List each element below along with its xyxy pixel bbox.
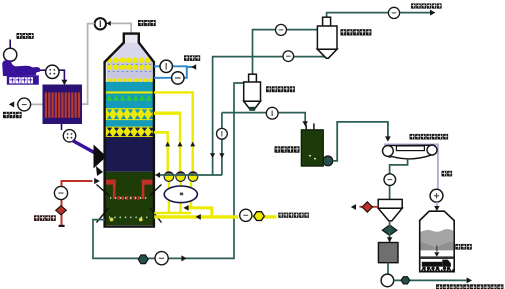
wire gypsum-cyclone branch (line B)	[221, 113, 223, 175]
absorber tower outline	[105, 34, 154, 227]
arrow up riser 2	[178, 142, 183, 147]
arrow down line B	[219, 153, 224, 158]
label waste water cyclone 废水旋流器	[341, 29, 372, 35]
vacuum belt filter 真空皮带脱水机	[383, 145, 438, 159]
slurry recirculation pump 3	[188, 172, 198, 182]
instrument circle overflow line	[276, 24, 287, 35]
oxidation fan ellipse	[164, 186, 197, 203]
wire branch Y2	[186, 208, 212, 216]
wire emergency slurry line Y1	[154, 215, 238, 218]
arrow bleed flow right	[181, 255, 186, 261]
label filtrate destination 至石灰石浆液制备系统	[436, 284, 503, 289]
label vacuum belt filter 真空皮带脱水机	[410, 134, 449, 140]
arrow to waste water plant	[430, 10, 435, 16]
wire slurry pump to belt filter	[333, 122, 388, 161]
wire spray header 3	[154, 131, 168, 134]
gypsum silo 石膏仓	[420, 211, 455, 272]
wire tank to pump circle	[387, 263, 389, 275]
arrow overflow left	[351, 204, 356, 210]
booster fan (purple scroll)	[2, 60, 40, 76]
arrow into GGH top	[61, 80, 67, 85]
wire raw-gas inlet drop	[9, 40, 11, 49]
instrument circle on Y1	[240, 209, 252, 221]
oxidation air start tick	[59, 225, 65, 227]
arrow on Y2	[183, 205, 188, 211]
label oxidation air 氧化空气	[34, 215, 56, 221]
valve red diamond oxidation	[56, 206, 67, 215]
wire waste-cyclone underflow return	[213, 52, 328, 176]
instrument circle clean-gas	[18, 98, 31, 111]
arrow flue gas into absorber (black blob)	[94, 145, 107, 169]
gypsum slurry tank 石膏浆液	[301, 123, 323, 166]
wire spray header 2	[154, 111, 180, 114]
waste water cyclone 废水旋流器	[317, 17, 337, 58]
instrument circle water lower	[172, 72, 184, 84]
wire GGH left to clean-gas arrow	[17, 103, 43, 105]
valve teal diamond below funnel	[382, 225, 397, 236]
instrument circle treatment line	[388, 7, 399, 18]
label gypsum cyclone 石膏旋流器	[266, 86, 295, 92]
instrument circle GGH rotor	[63, 130, 75, 142]
filtrate tank gray square	[378, 243, 398, 263]
wire waste-cyclone overflow to treatment	[327, 13, 431, 18]
booster fan label box 增压风机	[7, 75, 39, 84]
flue gas duct GGH to absorber (diagonal)	[73, 141, 97, 154]
arrow process water in	[191, 64, 196, 70]
pump circle bleed line	[155, 252, 168, 265]
wire clean gas: absorber top to GGH	[111, 23, 132, 33]
label process water 工艺水	[184, 55, 200, 61]
wire spray riser 3	[166, 131, 168, 172]
wire process water stub	[187, 66, 194, 68]
pump circle filtrate	[381, 274, 394, 287]
instrument circle tank feed	[266, 107, 278, 119]
wire red overflow from funnel	[360, 206, 379, 208]
wire pump suction collector	[154, 212, 191, 214]
instrument circle water upper	[160, 60, 172, 72]
wire gypsum-cyclone overflow to waste cyclone	[253, 30, 318, 74]
label to emergency tank 至事故浆液箱	[278, 213, 309, 218]
wire fan to damper	[40, 69, 46, 71]
label gypsum silo 石膏仓	[455, 244, 472, 250]
label gypsum 石膏	[442, 171, 453, 177]
valve yellow hexagon on Y1	[254, 212, 265, 221]
wire absorber bleed to pump loop	[93, 83, 244, 258]
arrow filtrate discharge	[467, 277, 472, 283]
belt line lavender	[384, 144, 438, 188]
wire process water upper	[154, 65, 187, 67]
instrument circle gypsum chute	[430, 189, 443, 202]
wire process water riser	[186, 65, 188, 78]
wire funnel to filtrate tank	[389, 221, 391, 243]
wire filtrate discharge	[394, 279, 467, 281]
wire process water lower	[154, 77, 187, 79]
label to waste water plant 至废水处理厂	[411, 3, 442, 8]
wire oxidation air	[62, 181, 93, 226]
wire belt filtrate down	[390, 159, 408, 199]
instrument circle on underflow return	[283, 51, 294, 62]
label raw flue gas 原烟气	[17, 33, 34, 39]
wire spray riser 1	[191, 91, 193, 172]
valve hexagon filtrate	[401, 277, 410, 284]
gypsum cyclone 石膏旋流器	[244, 74, 261, 111]
instrument circle filtrate	[384, 174, 396, 186]
absorber tower body	[105, 43, 154, 62]
instrument circle raw-gas damper	[4, 48, 17, 61]
arrow clean gas out (left)	[9, 101, 14, 107]
instrument circle line B	[217, 128, 228, 139]
slurry recirculation pump 2	[176, 172, 186, 182]
arrow up riser 1	[190, 142, 195, 147]
instrument circle stack-gas	[95, 18, 106, 29]
wire damper to GGH top	[59, 70, 64, 81]
wire cyclone overflow return (y175)	[159, 174, 223, 176]
valve hexagon bleed line	[138, 255, 148, 264]
filtrate receiver funnel	[378, 199, 402, 221]
instrument circle fan outlet damper	[46, 65, 59, 78]
label clean gas top 净烟气	[138, 20, 156, 26]
wire gypsum-cyclone underflow to slurry tank	[222, 113, 305, 123]
arrow on Y1	[196, 214, 201, 220]
wire stack-gas circle to GGH right	[82, 24, 95, 105]
arrow oxidation air into absorber	[94, 178, 100, 184]
GGH gas-gas heater	[43, 85, 83, 125]
arrow up riser 3	[165, 142, 170, 147]
arrow into reheat circle	[106, 21, 111, 26]
pump gypsum slurry (dark circle)	[323, 156, 333, 166]
arrow into gypsum slurry tank	[302, 121, 308, 126]
wire emergency slurry line Y1b	[253, 215, 277, 218]
label gypsum slurry 石膏浆液	[275, 146, 300, 152]
wire spray riser 2	[179, 112, 181, 173]
slurry recirculation pump 1	[164, 172, 174, 182]
wire GGH bottom to rotor circle	[61, 124, 63, 130]
absorber tank internals (oxidation lances, agitators)	[106, 180, 116, 185]
arrow onto belt filter	[385, 136, 391, 141]
wire spray header 1 (top)	[154, 91, 193, 93]
arrow down return line A	[210, 153, 215, 158]
wire gypsum chute to silo	[436, 202, 438, 208]
valve red diamond	[362, 202, 372, 212]
arrow into silo	[434, 206, 440, 211]
arrow into filtrate tank	[387, 237, 393, 242]
arrow return into absorber	[155, 172, 160, 178]
instrument circle oxidation	[54, 186, 67, 199]
label clean gas 净烟气	[3, 112, 22, 118]
